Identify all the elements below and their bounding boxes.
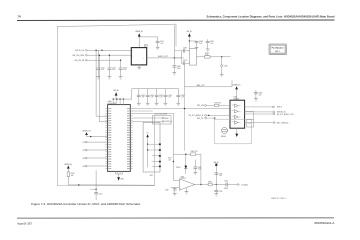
ground C441 <box>137 103 140 105</box>
ground C471 <box>97 77 100 79</box>
svg-text:UNSW_B+: UNSW_B+ <box>232 84 240 86</box>
svg-text:C473: C473 <box>123 67 127 69</box>
svg-text:SW_B+: SW_B+ <box>113 90 119 92</box>
terminal circle C485 <box>221 57 228 74</box>
svg-text:C442: C442 <box>150 95 154 97</box>
IC U400 body <box>108 101 131 171</box>
terminal circle MIC_LIN <box>205 105 207 107</box>
svg-text:B3: B3 <box>83 158 85 160</box>
svg-text:UNSW_B+: UNSW_B+ <box>135 31 143 33</box>
SCHEMATIC_BODY2 <box>173 26 287 87</box>
border bottom edge <box>57 185 154 187</box>
IC U400 inner pin number texture right <box>127 108 130 169</box>
pad tx chain <box>215 164 217 166</box>
wire R480 to junction <box>210 56 230 58</box>
svg-text:7-8: 7-8 <box>18 15 22 19</box>
svg-text:U402: U402 <box>180 176 184 178</box>
wire feedback loop <box>196 154 201 184</box>
ground C482 <box>173 193 176 195</box>
svg-text:C400: C400 <box>98 193 102 195</box>
microphone symbol MK400 <box>221 128 228 138</box>
node UNI_IN_ILK label <box>75 50 85 52</box>
ground below U471 <box>138 65 141 70</box>
wire RX_FLT_AUDIO_OUT <box>245 113 273 115</box>
header rule <box>17 19 335 22</box>
wire U402 output <box>195 184 208 186</box>
node junction row1 <box>95 50 96 51</box>
svg-text:.33uF: .33uF <box>177 68 181 70</box>
svg-text:B4: B4 <box>83 166 85 168</box>
op-amp C inside U401 <box>232 115 240 118</box>
IC Y470 block <box>190 49 197 66</box>
terminal circle RX_FLT_AUDIO_B <box>205 115 207 117</box>
svg-text:R476: R476 <box>71 173 75 175</box>
wire U400 right bus 3 <box>132 112 173 114</box>
op-amp D inside U401 <box>232 121 240 124</box>
power SW_B+ arrow above U400 <box>113 90 119 99</box>
footer rule <box>17 217 334 219</box>
svg-text:LM2902: LM2902 <box>233 99 239 101</box>
terminal circle UNI_IN_ILK <box>85 49 87 51</box>
svg-text:.1uF: .1uF <box>219 175 222 177</box>
svg-text:6816532H01-A: 6816532H01-A <box>314 221 334 225</box>
capacitor C489 right of U401 top <box>254 90 262 98</box>
capacitor C492 <box>215 190 223 194</box>
node junction 5V <box>90 136 91 137</box>
IC U400 right pin stubs <box>130 109 132 169</box>
wire vertical ask branch <box>184 87 186 151</box>
connector J400 pads <box>159 143 161 167</box>
IC U400 inner pin number texture left <box>108 108 111 169</box>
diode CR401 <box>176 154 187 173</box>
svg-text:C441: C441 <box>141 95 145 97</box>
svg-text:.01uF: .01uF <box>198 169 202 171</box>
node RX_FLT_AUDIO_B label <box>189 114 204 117</box>
svg-text:TX_AUD: TX_AUD <box>241 183 248 186</box>
svg-text:MIC_TURN_IN: MIC_TURN_IN <box>277 122 289 124</box>
capacitor C470 <box>156 41 164 47</box>
svg-text:.1uF: .1uF <box>210 43 213 45</box>
box mic sub-circuit <box>215 119 252 144</box>
svg-text:U401: U401 <box>233 97 237 99</box>
svg-text:.1uF: .1uF <box>141 97 144 99</box>
wire xtal left rail <box>174 51 183 63</box>
capacitor C445 riser end <box>177 89 185 104</box>
svg-text:RX_FLT_AUDIO_OUT: RX_FLT_AUDIO_OUT <box>277 113 294 116</box>
svg-text:C488: C488 <box>199 41 203 43</box>
node junction row2 <box>99 55 100 56</box>
svg-text:.1uF: .1uF <box>123 69 126 71</box>
border right upper edge <box>175 24 177 46</box>
terminal circle MIC_TURN_IN <box>273 122 289 125</box>
svg-text:C479: C479 <box>183 60 187 62</box>
svg-text:C470: C470 <box>160 41 164 43</box>
terminal circle UNSW <box>162 121 172 124</box>
svg-text:B1: B1 <box>83 142 85 144</box>
svg-text:.1uF: .1uF <box>112 69 115 71</box>
border right lower edge <box>153 116 155 186</box>
svg-text:U470: U470 <box>144 44 148 46</box>
svg-text:UNI_BTN_MGM: UNI_BTN_MGM <box>155 114 168 116</box>
connector J400 box <box>143 122 160 172</box>
wire row3 <box>87 59 120 61</box>
svg-text:MAEPF-27903-O: MAEPF-27903-O <box>271 197 286 200</box>
svg-text:J400: J400 <box>150 175 153 177</box>
wire row2 <box>87 54 131 56</box>
SCHEMATIC_BODY3 <box>64 89 184 200</box>
wire C400 stub <box>91 188 97 190</box>
power arrow inside J400 <box>146 133 149 167</box>
ground C473 <box>119 77 122 79</box>
node junction SW_B+ <box>189 40 190 41</box>
terminal circle P1 <box>83 141 108 144</box>
label J400 <box>150 175 153 177</box>
node junction RX_FLT <box>208 115 209 116</box>
svg-text:UNSW_B+: UNSW_B+ <box>165 121 173 123</box>
ground C470 <box>156 47 159 49</box>
svg-text:C443: C443 <box>159 95 163 97</box>
resistor R482 series <box>208 181 212 185</box>
node junction cap2 <box>109 55 110 56</box>
svg-text:U400: U400 <box>108 101 112 103</box>
wire tx chain vertical <box>215 166 217 190</box>
terminal circle UNI_ON_FB <box>85 59 87 61</box>
svg-text:MK400: MK400 <box>221 136 226 138</box>
svg-text:R470 47K: R470 47K <box>214 103 221 105</box>
svg-text:RX_FLT_AUDIO_B: RX_FLT_AUDIO_B <box>189 114 204 117</box>
op-amp B inside U401 <box>232 110 240 113</box>
wire top pin stubs U400 <box>113 99 123 105</box>
wire U400 top supply bus <box>113 98 132 100</box>
svg-text:MOD1: MOD1 <box>277 107 282 109</box>
svg-text:C472: C472 <box>112 67 116 69</box>
svg-text:UNSW_5V: UNSW_5V <box>82 131 91 133</box>
node junction J400 b <box>147 149 148 150</box>
svg-text:.1uF: .1uF <box>168 97 171 99</box>
power UNSW_B+ arrow above U401 <box>232 84 240 100</box>
wire R470 to U401 <box>219 104 230 106</box>
SCHEMATIC_BODY5 <box>189 84 294 144</box>
label UNI_BTN block <box>155 114 168 116</box>
capacitor C471 <box>97 50 105 77</box>
wire AUDIO_OUT <box>147 55 184 58</box>
svg-text:.1uF: .1uF <box>181 97 184 99</box>
wire MODIN_LN <box>245 111 273 113</box>
svg-text:Figure 7-4. HUD4022A Controlle: Figure 7-4. HUD4022A Controller Unican I… <box>31 202 141 206</box>
wire ASK_OUT <box>185 65 233 87</box>
wire U400 to UNI_BTN 2 <box>132 120 162 122</box>
capacitor C491 <box>215 173 223 177</box>
power UNSW_B+ arrow above U471 <box>135 31 143 48</box>
part number box <box>269 44 286 55</box>
header title <box>207 16 336 19</box>
svg-text:C489: C489 <box>258 93 262 95</box>
wire MIC_TX down <box>214 118 216 119</box>
svg-text:SW_B+: SW_B+ <box>214 162 220 164</box>
svg-text:R482: R482 <box>208 181 212 183</box>
wire into inverting input <box>173 179 179 181</box>
capacitor C480 .33uF <box>173 66 181 73</box>
svg-text:LM2904: LM2904 <box>180 178 186 180</box>
capacitor C444 <box>164 89 172 104</box>
capacitor C400 below border <box>94 193 102 200</box>
capacitor C481 <box>206 40 214 50</box>
svg-text:C485: C485 <box>224 66 228 68</box>
wire U400 left col down <box>95 171 97 193</box>
svg-text:C471: C471 <box>101 67 105 69</box>
svg-text:UNI_ON_FB: UNI_ON_FB <box>75 60 85 62</box>
svg-text:R483: R483 <box>224 188 228 190</box>
wire U400 to UNI_BTN 1 <box>132 117 162 119</box>
wire U400 right bus 2 <box>132 110 152 112</box>
wire riser to bypass bus <box>132 89 179 99</box>
node junction feedback <box>200 184 201 185</box>
resistor R480 <box>205 53 211 58</box>
resistor R477 label <box>168 158 172 162</box>
svg-text:C483: C483 <box>198 167 202 169</box>
svg-text:CR401: CR401 <box>176 167 181 169</box>
node supply dots <box>113 98 125 99</box>
IC U471 <box>131 44 148 64</box>
wire bus continues <box>96 184 154 186</box>
svg-text:C490: C490 <box>248 123 252 125</box>
svg-text:MGM: MGM <box>165 118 170 120</box>
capacitor C441 <box>137 89 145 104</box>
ground C488 <box>195 47 198 49</box>
connector J400 pad wires <box>148 144 159 166</box>
svg-text:Part Number: Part Number <box>272 47 284 50</box>
terminal circle MOD1 <box>272 106 281 109</box>
terminal circle RX_FLT_AUDIO_OUT <box>273 113 294 116</box>
capacitor C479 <box>183 60 190 65</box>
ground C485 <box>220 74 223 76</box>
ground C481 <box>206 49 209 51</box>
node UNI_ON_FB label <box>75 60 85 62</box>
IC U401 quad op-amp <box>230 97 245 129</box>
small box C490 <box>247 120 254 128</box>
resistor R470 <box>214 103 221 107</box>
terminal circle P3 <box>83 157 108 160</box>
capacitor C482 noninverting <box>165 188 179 194</box>
svg-text:UNI_IN_ILK: UNI_IN_ILK <box>75 50 85 52</box>
ground arrow below U401 <box>235 134 238 137</box>
ground C483 <box>194 172 197 174</box>
wire long vertical net <box>172 113 174 180</box>
terminal circle UNI_ON_OFF8 <box>85 54 87 56</box>
terminal circle MODIN_LN <box>273 111 287 114</box>
wire vertical net from border to C480 <box>173 26 175 66</box>
node junction right bus <box>184 108 185 109</box>
wire row1 <box>87 49 131 51</box>
capacitor C443 <box>155 89 163 104</box>
svg-text:008: 1: 008: 1 <box>275 51 280 53</box>
IC U400 left pin stubs <box>106 109 108 169</box>
svg-text:.1uF: .1uF <box>258 94 261 96</box>
svg-text:R477: R477 <box>168 158 172 160</box>
node junction tx1 <box>216 184 217 185</box>
svg-text:.1uF: .1uF <box>101 69 104 71</box>
wire MOD1 <box>245 106 273 108</box>
capacitor C488 <box>189 41 202 47</box>
node MIC_TX label <box>197 118 204 120</box>
wire U401 out B to box <box>245 111 254 119</box>
svg-text:Schematics, Component Location: Schematics, Component Location Diagrams,… <box>207 16 336 19</box>
op-amp A inside U401 <box>232 104 240 107</box>
node junction cap3 <box>120 60 121 61</box>
footer document number <box>314 221 334 225</box>
terminal circle P4 <box>83 165 108 168</box>
watermark MAEPF <box>271 197 286 200</box>
figure caption <box>31 202 141 206</box>
svg-text:C486: C486 <box>183 47 187 49</box>
node MIC_LIN label <box>197 105 204 107</box>
footer date <box>17 221 32 225</box>
svg-text:August 24, 2007: August 24, 2007 <box>17 221 32 225</box>
power SW_B+ arrow 2 <box>187 31 193 49</box>
node junction MIC_TX <box>214 117 215 118</box>
SCHEMATIC_BODY6 <box>150 151 249 196</box>
svg-text:+: + <box>180 188 181 190</box>
svg-text:MIC_TX: MIC_TX <box>197 118 204 120</box>
capacitor C442 <box>146 89 154 104</box>
svg-text:MIC_LIN: MIC_LIN <box>197 105 204 107</box>
svg-text:ASK_OUT: ASK_OUT <box>197 84 205 87</box>
terminal circle TX_AUD <box>237 183 248 186</box>
node junction out <box>221 56 222 57</box>
box UNI_BTN <box>152 116 171 124</box>
wire to C470 <box>139 37 157 41</box>
capacitor C473 <box>119 60 127 77</box>
ground C443 <box>155 103 158 105</box>
svg-text:MC13: MC13 <box>144 46 148 48</box>
node junction bus1 <box>78 184 79 185</box>
wire RX_FLT_AUDIO_B to U401 <box>206 114 230 116</box>
svg-text:R481 47K: R481 47K <box>191 151 198 153</box>
ground C445 <box>177 103 180 105</box>
wire MIC_TX <box>206 117 214 119</box>
wire MIC_TURN_IN <box>245 122 274 124</box>
border left edge <box>56 27 58 186</box>
svg-text:UNI_ON_OFF8: UNI_ON_OFF8 <box>72 55 84 57</box>
IC U400 bottom pins <box>116 171 123 177</box>
svg-text:.1uF: .1uF <box>199 43 202 45</box>
ground arrow below U400 <box>117 177 125 180</box>
svg-text:10K: 10K <box>168 159 171 161</box>
svg-text:C445: C445 <box>181 95 185 97</box>
ground C492 <box>215 194 218 196</box>
svg-text:.1uF: .1uF <box>150 97 153 99</box>
node junction diode top <box>185 154 186 155</box>
capacitor C483 <box>194 160 202 172</box>
ground C444 <box>164 103 167 105</box>
ground C489 <box>254 99 257 101</box>
page number 7-8 <box>18 15 22 19</box>
capacitor C486 <box>183 47 190 52</box>
SCHEMATIC_BODY <box>57 24 183 185</box>
ground C472 <box>108 77 111 79</box>
svg-text:C444: C444 <box>168 95 172 97</box>
resistor R481 feedback <box>191 151 198 155</box>
svg-text:.1uF: .1uF <box>160 43 163 45</box>
wire vertical to U400 pin b <box>99 55 107 122</box>
svg-text:C491: C491 <box>219 173 223 175</box>
svg-text:.1uF: .1uF <box>159 97 162 99</box>
wire MIC_LIN to R470 <box>206 104 214 106</box>
svg-text:C481: C481 <box>210 41 214 43</box>
wire U401 bottom <box>236 128 238 133</box>
wire vertical to U400 pin a <box>96 50 108 116</box>
node junction J400 a <box>147 144 148 145</box>
wire U400 right bus 1 <box>132 108 230 110</box>
node junction C400 <box>95 189 97 191</box>
node UNI_ON_OFF8 label <box>72 55 84 57</box>
power UNSW_B+ arrow bottom left <box>64 164 72 172</box>
ground C480 <box>173 73 176 75</box>
ground C442 <box>146 103 149 105</box>
terminal circle MGM <box>162 117 169 120</box>
svg-text:C484: C484 <box>224 181 228 183</box>
node junction row1b <box>101 50 102 51</box>
wire feedback left <box>173 153 190 155</box>
power 5V arrow left of U400 <box>82 131 107 137</box>
ground U402 <box>185 189 188 195</box>
op-amp U402 <box>179 176 194 190</box>
terminal circle P2 <box>83 149 108 152</box>
svg-text:C482: C482 <box>165 190 169 192</box>
wire R476 to bus <box>68 177 96 185</box>
terminal circle MIC_TX <box>205 117 207 119</box>
wire R482 to cap <box>212 184 226 186</box>
svg-text:B2: B2 <box>83 150 85 152</box>
svg-text:C492: C492 <box>219 191 223 193</box>
svg-text:C480: C480 <box>177 66 181 68</box>
svg-text:AUDIO_OUT: AUDIO_OUT <box>158 55 168 58</box>
resistor R476 <box>67 172 74 177</box>
node junction long vertical <box>173 161 174 162</box>
SCHEMATIC_BODY4 <box>132 87 230 181</box>
capacitor C484 series <box>224 181 237 190</box>
node junction AUDIO_OUT x174 <box>174 57 175 58</box>
wire Y470 output <box>197 56 205 58</box>
capacitor C472 <box>108 55 116 77</box>
label SW_B+ tx chain <box>214 162 220 164</box>
svg-text:SW_B+: SW_B+ <box>187 31 193 33</box>
border top edge <box>57 24 176 26</box>
